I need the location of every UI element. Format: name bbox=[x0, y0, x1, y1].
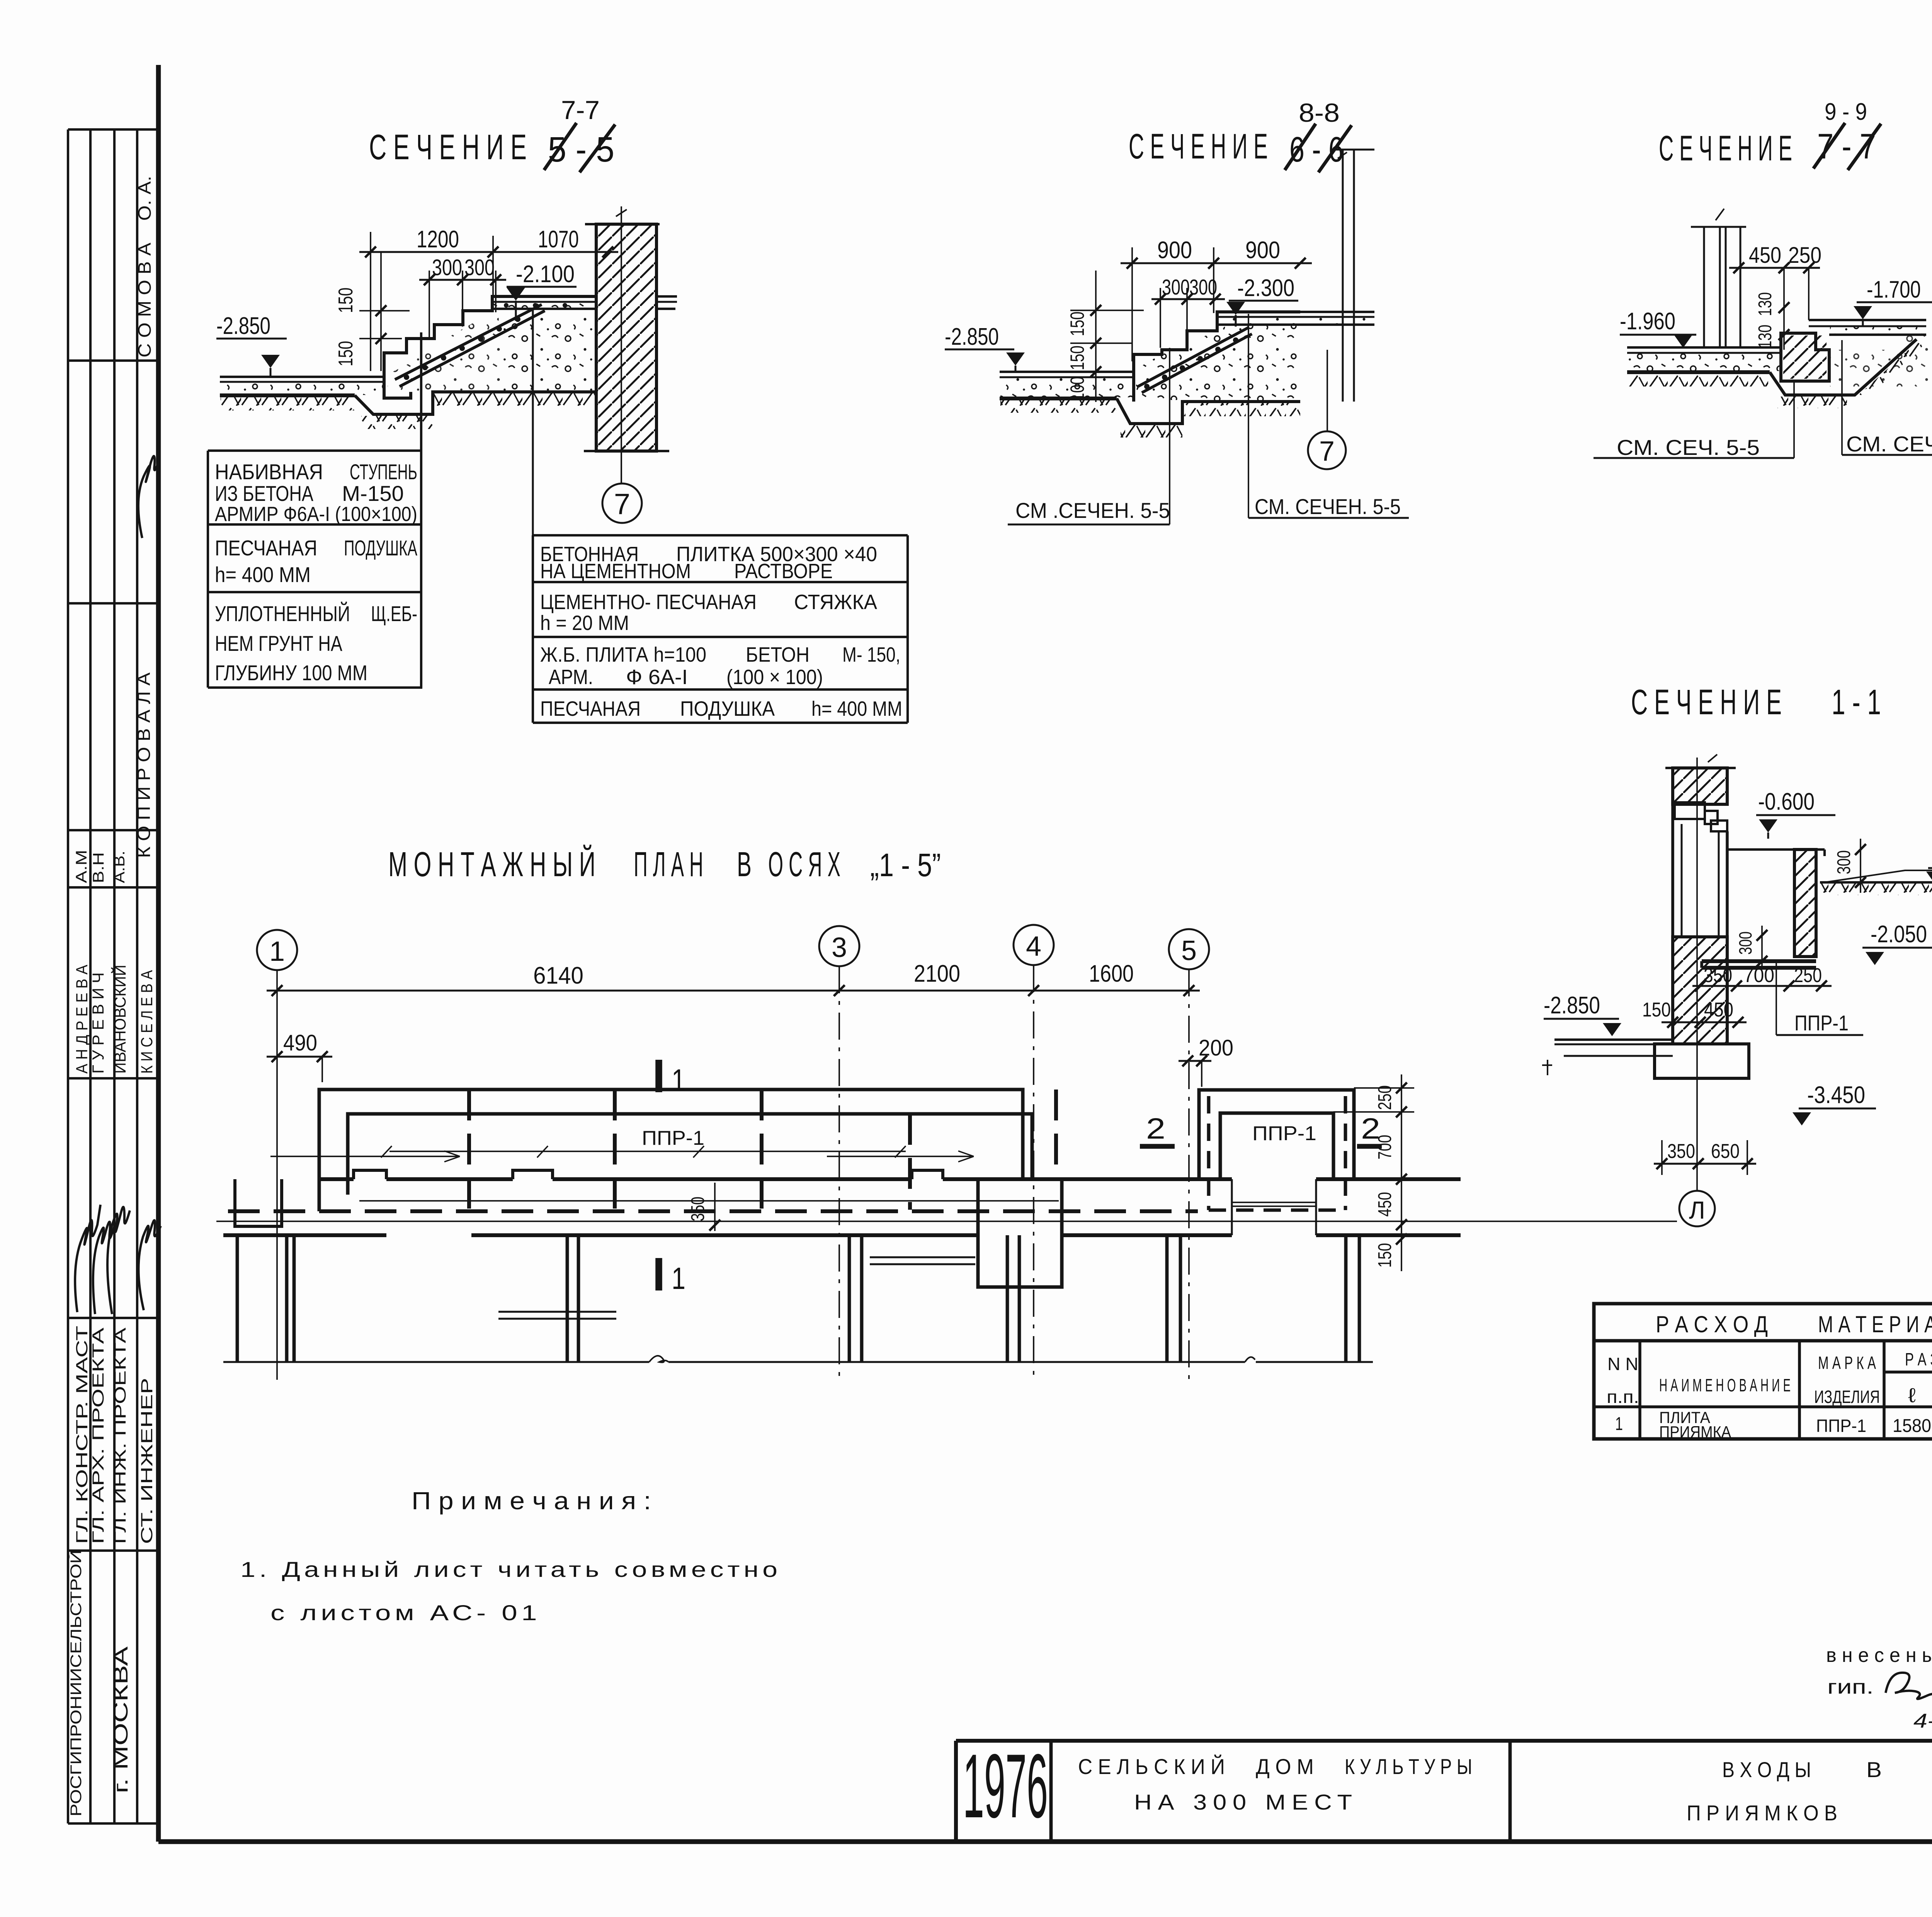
svg-text:СТЯЖКА: СТЯЖКА bbox=[794, 591, 877, 614]
svg-text:300: 300 bbox=[1834, 850, 1854, 874]
svg-text:БЕТОН: БЕТОН bbox=[746, 643, 810, 666]
section 7-7 stair steps outline bbox=[384, 377, 411, 398]
sheet frame left border bbox=[156, 65, 161, 1842]
plan left end block bbox=[235, 1179, 282, 1226]
svg-text:300: 300 bbox=[464, 255, 495, 280]
9-9 right floor at -1.700 bbox=[1809, 319, 1926, 321]
plan hidden dashed right edge bbox=[1054, 1090, 1058, 1180]
svg-text:В: В bbox=[737, 845, 752, 884]
plan axis L line bbox=[216, 1221, 1677, 1222]
svg-text:ГЛ. ИНЖ. ПРОЕКТА: ГЛ. ИНЖ. ПРОЕКТА bbox=[111, 1328, 129, 1544]
svg-text:150: 150 bbox=[1642, 999, 1671, 1021]
svg-text:С Е Ч Е Н И Е: С Е Ч Е Н И Е bbox=[369, 128, 527, 167]
section 7-7 left floor slab bbox=[220, 376, 384, 378]
svg-text:-2.300: -2.300 bbox=[1237, 275, 1294, 301]
materials table outer frame bbox=[1594, 1304, 1932, 1439]
svg-text:150: 150 bbox=[1066, 312, 1088, 336]
svg-text:Ж.Б. ПЛИТА h=100: Ж.Б. ПЛИТА h=100 bbox=[540, 643, 706, 666]
wall section (hatched) bbox=[596, 224, 656, 451]
svg-text:г. МОСКВА: г. МОСКВА bbox=[110, 1646, 132, 1793]
svg-text:700: 700 bbox=[1375, 1135, 1395, 1159]
svg-text:250: 250 bbox=[1375, 1085, 1395, 1110]
title block frame bbox=[956, 1739, 1932, 1743]
1-1 foundation block bbox=[1655, 1044, 1749, 1078]
1-1 dim 300 (plate) bbox=[1757, 930, 1767, 941]
svg-text:М-150: М-150 bbox=[342, 481, 404, 506]
svg-text:300: 300 bbox=[1735, 931, 1755, 955]
svg-text:2100: 2100 bbox=[914, 960, 960, 987]
8-8 reference см.сечен 5-5 right bbox=[1248, 314, 1249, 518]
svg-text:150: 150 bbox=[335, 288, 357, 313]
svg-text:2: 2 bbox=[1146, 1112, 1165, 1145]
1-1 dim 350/700/250 bbox=[1692, 985, 1832, 987]
1-1 wall column upper (hatched) bbox=[1673, 768, 1727, 804]
dim line 300/300 bbox=[419, 279, 506, 281]
stamp signature (copier) bbox=[138, 456, 159, 538]
1-1 pit floor line to wall bbox=[1727, 848, 1794, 851]
dim line 900/900 bbox=[1121, 262, 1312, 264]
section 7-7 excavation pit under stair bbox=[355, 392, 596, 414]
plan wall pair below protrusion bbox=[1006, 1235, 1009, 1362]
svg-text:М О Н Т А Ж Н Ы Й: М О Н Т А Ж Н Ы Й bbox=[388, 844, 595, 884]
9-9 column above bbox=[1703, 227, 1705, 347]
svg-text:6140: 6140 bbox=[533, 962, 583, 989]
plan axis lines bbox=[276, 970, 278, 1380]
svg-text:В: В bbox=[1866, 1757, 1882, 1782]
svg-text:АРМ.: АРМ. bbox=[549, 666, 593, 689]
svg-text:150: 150 bbox=[1066, 346, 1088, 370]
svg-text:150: 150 bbox=[1375, 1243, 1395, 1268]
svg-text:С Е Ч Е Н И Е: С Е Ч Е Н И Е bbox=[1631, 683, 1782, 722]
plan outer box (pit walls) bbox=[319, 1090, 1023, 1211]
plan left outer wall edge below bbox=[236, 1235, 239, 1362]
svg-text:СМ .СЕЧЕН. 5-5: СМ .СЕЧЕН. 5-5 bbox=[1015, 498, 1170, 523]
svg-text:-0.600: -0.600 bbox=[1758, 788, 1815, 815]
svg-text:В Х О Д Ы: В Х О Д Ы bbox=[1722, 1757, 1811, 1782]
leader line to label box 1 bbox=[420, 332, 422, 688]
svg-text:1976: 1976 bbox=[963, 1735, 1048, 1837]
svg-text:1070: 1070 bbox=[538, 226, 579, 253]
svg-text:НАБИВНАЯ: НАБИВНАЯ bbox=[215, 460, 323, 484]
svg-text:К У Л Ь Т У Р Ы: К У Л Ь Т У Р Ы bbox=[1345, 1754, 1472, 1779]
svg-text:СМ. СЕЧ 5-5: СМ. СЕЧ 5-5 bbox=[1846, 432, 1932, 456]
1-1 pit wall (hatched) bbox=[1794, 850, 1816, 957]
8-8 stair concrete speckles bbox=[1136, 318, 1298, 400]
svg-text:Н А И М Е Н О В А Н И Е: Н А И М Е Н О В А Н И Е bbox=[1659, 1375, 1791, 1395]
svg-text:М А Т Е Р И А Л О В: М А Т Е Р И А Л О В bbox=[1818, 1311, 1932, 1337]
svg-text:1 - 1: 1 - 1 bbox=[1832, 683, 1881, 722]
svg-text:П Л А Н: П Л А Н bbox=[634, 845, 703, 884]
svg-text:1: 1 bbox=[1615, 1414, 1623, 1434]
label box: betonnaya plitka bbox=[533, 534, 908, 536]
svg-text:ПЕСЧАНАЯ: ПЕСЧАНАЯ bbox=[215, 536, 317, 560]
svg-text:ℓ: ℓ bbox=[1908, 1384, 1916, 1407]
svg-text:К И С Е Л Е В А: К И С Е Л Е В А bbox=[138, 970, 156, 1074]
svg-text:С Е Л Ь С К И Й: С Е Л Ь С К И Й bbox=[1078, 1754, 1225, 1779]
svg-text:СМ. СЕЧЕН. 5-5: СМ. СЕЧЕН. 5-5 bbox=[1255, 494, 1401, 519]
8-8 detail circle 7 bbox=[1308, 431, 1346, 469]
svg-text:РОСГИПРОНИИСЕЛЬСТРОЙ: РОСГИПРОНИИСЕЛЬСТРОЙ bbox=[67, 1550, 85, 1817]
svg-text:Ф 6А-I: Ф 6А-I bbox=[626, 666, 688, 689]
9-9 vertical dims 130/130 bbox=[1779, 302, 1789, 313]
svg-text:ПОДУШКА: ПОДУШКА bbox=[344, 536, 417, 560]
9-9 dim 450/250 bbox=[1729, 267, 1820, 269]
svg-text:в н е с е н ы: в н е с е н ы bbox=[1826, 1644, 1932, 1667]
svg-text:1580: 1580 bbox=[1893, 1416, 1931, 1436]
plan axis 4 circle bbox=[1014, 925, 1054, 965]
plan hidden line along band bbox=[228, 1209, 1198, 1213]
svg-text:ГЛ. АРХ. ПРОЕКТА: ГЛ. АРХ. ПРОЕКТА bbox=[89, 1328, 107, 1544]
stamp table (rotated document stamp, left margin) bbox=[67, 129, 69, 1823]
plan plate seat under right box bbox=[1231, 1179, 1233, 1235]
plan band notches bbox=[354, 1170, 386, 1179]
8-8 rebar diagonal bbox=[1138, 328, 1248, 386]
svg-text:п.п.: п.п. bbox=[1607, 1387, 1639, 1407]
1-1 ground line right bbox=[1820, 881, 1932, 884]
stair rebar diagonal bbox=[395, 305, 542, 380]
plan dim 200 bbox=[1179, 1060, 1211, 1062]
1-1 dim 150/450 bbox=[1662, 1021, 1747, 1023]
svg-text:-2.850: -2.850 bbox=[216, 313, 270, 339]
svg-text:ППР-1: ППР-1 bbox=[1252, 1122, 1316, 1145]
svg-text:7-7: 7-7 bbox=[561, 95, 600, 125]
svg-text:С Е Ч Е Н И Е: С Е Ч Е Н И Е bbox=[1129, 127, 1268, 166]
svg-text:-2.850: -2.850 bbox=[1544, 992, 1600, 1019]
svg-text:ПОДУШКА: ПОДУШКА bbox=[680, 697, 775, 720]
1-1 axis line and circle L bbox=[1696, 758, 1698, 1191]
svg-text:1: 1 bbox=[672, 1063, 685, 1097]
svg-text:Г У Р Е В И Ч: Г У Р Е В И Ч bbox=[89, 972, 107, 1074]
svg-text:-3.450: -3.450 bbox=[1807, 1082, 1865, 1108]
8-8 leader to circle 7 bbox=[1327, 350, 1328, 431]
table header bottom line bbox=[1594, 1405, 1932, 1408]
svg-text:Щ.ЕБ-: Щ.ЕБ- bbox=[371, 601, 417, 626]
svg-text:5: 5 bbox=[1181, 935, 1197, 966]
svg-text:„1 - 5”: „1 - 5” bbox=[870, 847, 941, 883]
svg-text:НА ЦЕМЕНТНОМ: НА ЦЕМЕНТНОМ bbox=[540, 560, 691, 583]
plan right vertical dim chain 250/700/450/150 bbox=[1401, 1074, 1402, 1271]
svg-text:h = 20 ММ: h = 20 ММ bbox=[540, 611, 629, 635]
plan laying arrow right bbox=[827, 1156, 974, 1157]
stamp signatures block bbox=[75, 1205, 100, 1312]
svg-text:250: 250 bbox=[1794, 964, 1822, 987]
label box: nabivnaya stupen bbox=[208, 449, 421, 452]
svg-text:П Р И Я М К О В: П Р И Я М К О В bbox=[1687, 1801, 1837, 1825]
1-1 wall column lower (hatched) bbox=[1673, 937, 1727, 1044]
svg-text:Р А С Х О Д: Р А С Х О Д bbox=[1656, 1311, 1768, 1337]
1-1 plate PPR-1 bbox=[1702, 959, 1816, 963]
svg-text:130: 130 bbox=[1755, 292, 1776, 316]
stair concrete speckle fill bbox=[386, 314, 502, 392]
table title row bbox=[1594, 1339, 1932, 1343]
svg-text:СТ. ИНЖЕНЕР: СТ. ИНЖЕНЕР bbox=[138, 1378, 156, 1544]
plan inner box bbox=[348, 1114, 1032, 1195]
svg-text:450: 450 bbox=[1704, 999, 1733, 1021]
plan right PPR-1 box dashed inset bbox=[1207, 1096, 1211, 1210]
plan lower stair edges between walls bbox=[498, 1311, 616, 1313]
svg-text:ИЗДЕЛИЯ: ИЗДЕЛИЯ bbox=[1814, 1387, 1880, 1407]
svg-text:900: 900 bbox=[1157, 237, 1192, 264]
svg-text:490: 490 bbox=[283, 1030, 317, 1056]
svg-text:1. Данный лист читать совм: 1. Данный лист читать совместно bbox=[240, 1557, 781, 1582]
1-1 wall column middle bbox=[1671, 804, 1674, 937]
svg-text:гип.: гип. bbox=[1827, 1676, 1874, 1698]
1-1 wall step blocks bbox=[1675, 802, 1705, 819]
svg-text:200: 200 bbox=[1199, 1035, 1233, 1061]
plan dim 490 bbox=[267, 1056, 332, 1058]
svg-text:900: 900 bbox=[1245, 237, 1280, 264]
plan section mark 1 top bbox=[655, 1060, 662, 1092]
vertical dim 150/150 bbox=[380, 252, 382, 371]
table razmery sub-line bbox=[1884, 1371, 1932, 1374]
title strikethrough 7-7 bbox=[1813, 123, 1845, 169]
svg-text:-1.700: -1.700 bbox=[1867, 276, 1921, 303]
8-8 pit under stair bbox=[1117, 398, 1300, 424]
9-9 left floor slab bbox=[1627, 346, 1781, 349]
svg-text:ГЛ. КОНСТР. МАСТ: ГЛ. КОНСТР. МАСТ bbox=[73, 1326, 91, 1544]
svg-text:НА 300 МЕСТ: НА 300 МЕСТ bbox=[1134, 1790, 1358, 1814]
plan band bottom line bbox=[223, 1233, 386, 1237]
svg-text:А.В.: А.В. bbox=[111, 851, 128, 883]
svg-text:ППР-1: ППР-1 bbox=[1794, 1011, 1849, 1035]
svg-text:7: 7 bbox=[1319, 436, 1335, 467]
8-8 landing layers right bbox=[1217, 316, 1374, 318]
svg-text:В.Н: В.Н bbox=[90, 852, 107, 883]
svg-text:300: 300 bbox=[1162, 275, 1190, 299]
plan band top line bbox=[319, 1177, 354, 1181]
plan axis 3 circle bbox=[819, 926, 859, 966]
plan axis 5 circle bbox=[1169, 929, 1209, 969]
svg-text:СМ. СЕЧ. 5-5: СМ. СЕЧ. 5-5 bbox=[1617, 435, 1760, 460]
svg-text:П р и м е ч а н и я :: П р и м е ч а н и я : bbox=[412, 1487, 651, 1515]
1-1 dim 350/650 bottom bbox=[1654, 1163, 1756, 1165]
svg-text:НЕМ ГРУНТ НА: НЕМ ГРУНТ НА bbox=[215, 631, 343, 655]
svg-text:450: 450 bbox=[1749, 243, 1781, 268]
svg-text:АРМИР Ф6А-I (100×100): АРМИР Ф6А-I (100×100) bbox=[215, 503, 417, 526]
svg-text:ППР-1: ППР-1 bbox=[642, 1127, 704, 1149]
svg-text:А Н Д Р Е Е В А: А Н Д Р Е Е В А bbox=[73, 965, 91, 1074]
plan right PPR-1 box outer bbox=[1199, 1090, 1354, 1179]
8-8 wall axis above bbox=[1342, 150, 1344, 402]
svg-text:С Е Ч Е Н И Е: С Е Ч Е Н И Е bbox=[1659, 129, 1792, 168]
plan section mark 1 bottom bbox=[655, 1258, 662, 1290]
plan mid protrusion (deep pit between axes 3-4) bbox=[978, 1179, 1062, 1287]
svg-text:ЦЕМЕНТНО- ПЕСЧАНАЯ: ЦЕМЕНТНО- ПЕСЧАНАЯ bbox=[540, 591, 757, 614]
9-9 pit concrete element (hatched) bbox=[1781, 333, 1829, 381]
detail circle 7 bbox=[602, 484, 642, 523]
plan wall pairs below band bbox=[285, 1235, 289, 1362]
plan bottom boundary line bbox=[223, 1361, 649, 1363]
svg-text:А.М: А.М bbox=[73, 850, 90, 883]
svg-text:(100 × 100): (100 × 100) bbox=[726, 666, 823, 689]
svg-text:7: 7 bbox=[614, 488, 630, 521]
svg-text:ИВАНОВСКИЙ: ИВАНОВСКИЙ bbox=[111, 965, 129, 1074]
plan main dim line 6140/2100/1600 bbox=[267, 990, 1200, 992]
svg-text:350: 350 bbox=[1667, 1140, 1695, 1163]
plan plate edge line with breaks bbox=[389, 1151, 906, 1152]
8-8 stair outline bbox=[1134, 312, 1300, 372]
sheet frame bottom border bbox=[158, 1839, 1932, 1844]
svg-text:О С Я Х: О С Я Х bbox=[768, 845, 840, 884]
9-9 reference см.сеч 5-5 right bbox=[1841, 340, 1843, 455]
svg-text:ГЛУБИНУ 100 ММ: ГЛУБИНУ 100 ММ bbox=[215, 661, 367, 685]
svg-text:Л: Л bbox=[1689, 1196, 1705, 1224]
svg-text:1: 1 bbox=[672, 1261, 685, 1296]
svg-text:1: 1 bbox=[269, 936, 285, 967]
svg-text:УПЛОТНЕННЫЙ: УПЛОТНЕННЫЙ bbox=[215, 601, 350, 626]
svg-text:h= 400 ММ: h= 400 ММ bbox=[811, 697, 902, 720]
table column lines bbox=[1638, 1341, 1641, 1439]
svg-text:130: 130 bbox=[1755, 325, 1776, 349]
svg-text:650: 650 bbox=[1711, 1140, 1740, 1163]
8-8 left floor slab bbox=[1000, 371, 1134, 373]
svg-text:С О М О В А О. А.: С О М О В А О. А. bbox=[134, 176, 155, 358]
9-9 reference см.сеч 5-5 left bbox=[1793, 383, 1795, 458]
svg-text:350: 350 bbox=[1704, 964, 1732, 987]
svg-text:-1.960: -1.960 bbox=[1620, 308, 1675, 335]
plan axis 1 circle bbox=[257, 930, 297, 970]
plan panel joints dashed bbox=[467, 1090, 471, 1210]
dim line 300/300 (8-8) bbox=[1151, 298, 1225, 300]
svg-text:СТУПЕНЬ: СТУПЕНЬ bbox=[350, 460, 417, 484]
svg-text:Р А З М Е Р Ы: Р А З М Е Р Ы bbox=[1905, 1349, 1932, 1369]
vertical dims 150/150/100 (8-8) bbox=[1095, 271, 1097, 402]
svg-text:3: 3 bbox=[832, 932, 847, 963]
1-1 dim 300 (pit wall top) bbox=[1855, 844, 1866, 855]
detail circle 7 leader bbox=[621, 451, 622, 484]
plan right PPR-1 inner box bbox=[1220, 1113, 1333, 1179]
svg-text:ПЕСЧАНАЯ: ПЕСЧАНАЯ bbox=[540, 697, 641, 720]
9-9 excavation pit bbox=[1770, 339, 1917, 395]
svg-text:250: 250 bbox=[1788, 243, 1821, 268]
svg-text:300: 300 bbox=[1189, 275, 1217, 299]
svg-text:8-8: 8-8 bbox=[1299, 98, 1340, 128]
svg-text:7 - 7: 7 - 7 bbox=[1817, 127, 1876, 166]
wall axis line bbox=[621, 206, 622, 484]
svg-text:150: 150 bbox=[335, 341, 357, 366]
svg-text:4: 4 bbox=[1026, 931, 1041, 962]
plan thin plate line in band bbox=[359, 1200, 1059, 1202]
svg-text:с листом АС- 01: с листом АС- 01 bbox=[270, 1600, 541, 1625]
1-1 leader PPR-1 label bbox=[1776, 961, 1777, 1035]
svg-text:1600: 1600 bbox=[1089, 960, 1134, 987]
svg-text:-2.850: -2.850 bbox=[945, 323, 999, 350]
svg-text:М А Р К А: М А Р К А bbox=[1818, 1353, 1876, 1373]
svg-text:450: 450 bbox=[1375, 1192, 1395, 1217]
svg-text:300: 300 bbox=[432, 255, 462, 280]
svg-text:700: 700 bbox=[1743, 964, 1774, 987]
svg-text:N N: N N bbox=[1607, 1354, 1638, 1374]
svg-text:ПРИЯМКА: ПРИЯМКА bbox=[1659, 1423, 1731, 1441]
svg-text:4- V - 81г: 4- V - 81г bbox=[1913, 1710, 1932, 1732]
svg-text:h= 400 ММ: h= 400 ММ bbox=[215, 562, 311, 587]
svg-text:Д О М: Д О М bbox=[1256, 1754, 1314, 1779]
svg-text:ППР-1: ППР-1 bbox=[1816, 1416, 1866, 1436]
svg-text:ИЗ БЕТОНА: ИЗ БЕТОНА bbox=[215, 481, 314, 506]
svg-text:М- 150,: М- 150, bbox=[842, 643, 900, 666]
svg-text:К О П И Р О В А Л А: К О П И Р О В А Л А bbox=[134, 672, 154, 858]
title strikethrough bbox=[544, 123, 577, 170]
svg-text:-2.050: -2.050 bbox=[1871, 921, 1927, 948]
title strikethrough 6-6 bbox=[1285, 124, 1316, 170]
plan laying arrow left bbox=[270, 1156, 460, 1157]
dim line 1200/1070 bbox=[359, 251, 618, 253]
svg-text:9 - 9: 9 - 9 bbox=[1825, 99, 1867, 125]
svg-text:1200: 1200 bbox=[417, 226, 459, 253]
8-8 reference см.сечен 5-5 left bbox=[1169, 348, 1170, 524]
svg-text:-2.100: -2.100 bbox=[516, 261, 575, 288]
landing finish layers bbox=[492, 301, 596, 303]
svg-text:РАСТВОРЕ: РАСТВОРЕ bbox=[734, 560, 833, 583]
floor right of wall bbox=[657, 295, 677, 298]
leader line to label box 2 bbox=[532, 309, 534, 535]
